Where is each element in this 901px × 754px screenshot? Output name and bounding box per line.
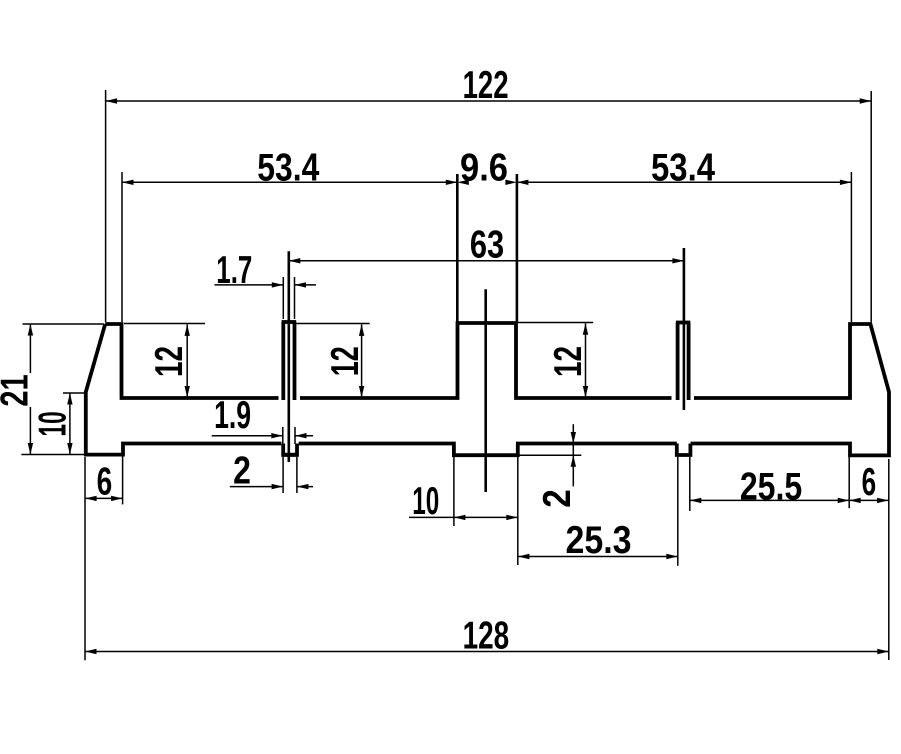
dimension 2 (tab depth)	[518, 424, 582, 508]
svg-text:25.5: 25.5	[740, 466, 802, 509]
svg-text:53.4: 53.4	[651, 147, 715, 190]
left fin centerline (63 extension)	[287, 251, 290, 462]
dimension 1.9 (fin width at web)	[212, 394, 313, 444]
dimension 10 left (flange height)	[32, 393, 85, 455]
dimension 21 (overall height)	[0, 324, 104, 455]
svg-text:12: 12	[324, 346, 367, 376]
svg-text:122: 122	[463, 64, 509, 107]
profile right end (slanted flange, web bottom right)	[691, 324, 889, 455]
profile left end (slanted flange, web top left)	[86, 324, 281, 455]
dimension 10 (center tab width)	[409, 457, 518, 565]
dimension 25.3	[518, 457, 678, 566]
dimension 1.7 (fin width top)	[215, 249, 317, 319]
dimension 53.4 left	[122, 147, 457, 323]
svg-text:63: 63	[470, 224, 504, 267]
svg-text:12: 12	[547, 346, 590, 377]
svg-text:21: 21	[0, 374, 37, 406]
right fin centerline (63 extension)	[683, 248, 686, 410]
dimension 9.6 (center boss)	[457, 147, 517, 323]
svg-text:2: 2	[233, 449, 251, 492]
svg-text:1.9: 1.9	[214, 394, 251, 437]
dimension 128 (bottom overall)	[85, 457, 889, 660]
dimension 63 (fin spacing)	[289, 224, 684, 267]
dimension 6 left (foot width)	[85, 450, 123, 504]
svg-text:53.4: 53.4	[257, 147, 319, 190]
right fin foot tab	[677, 444, 691, 456]
dimension 12 middle (web depth)	[296, 324, 369, 398]
svg-text:1.7: 1.7	[216, 249, 252, 292]
dimension 12 left (web depth)	[124, 324, 205, 398]
profile center boss (9.6 wide) and web top	[300, 323, 672, 398]
svg-text:9.6: 9.6	[460, 147, 508, 190]
svg-text:2: 2	[536, 489, 579, 508]
svg-text:12: 12	[148, 346, 191, 377]
svg-text:25.3: 25.3	[566, 519, 632, 562]
right fin T2 (walls and cap)	[676, 323, 690, 401]
dimension 53.4 right	[517, 147, 852, 323]
left fin foot (2 wide)	[282, 444, 299, 455]
svg-text:6: 6	[862, 461, 877, 504]
left fin T1 (walls and cap)	[282, 322, 297, 400]
dimension 25.5	[690, 457, 849, 511]
dimension 12 right (web depth)	[518, 323, 593, 398]
main centerline	[484, 289, 487, 492]
svg-text:128: 128	[463, 615, 510, 658]
dimension 6 right (foot width)	[849, 461, 888, 504]
svg-text:10: 10	[412, 480, 439, 523]
svg-text:10: 10	[32, 411, 75, 436]
profile web bottom with center tab (10 wide)	[299, 444, 677, 456]
dimension 2 (fin foot width)	[230, 449, 313, 493]
svg-text:6: 6	[97, 460, 113, 503]
dimension 122 (top overall)	[106, 64, 872, 322]
